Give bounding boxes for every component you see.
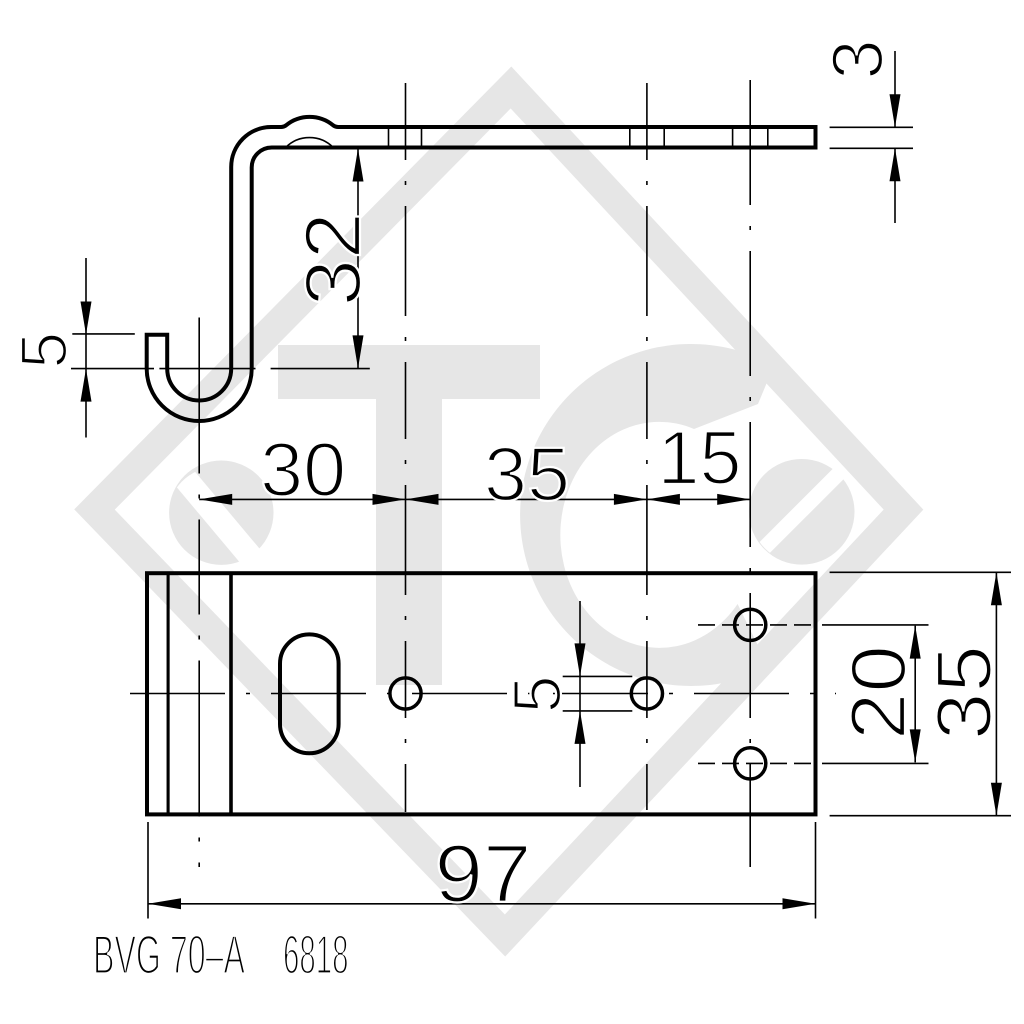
svg-text:35: 35 (484, 433, 570, 518)
vertical centerline hole 1 x=405 (405, 83, 407, 812)
fold line left 2 (229, 573, 233, 814)
centerline through hook tip (71, 368, 154, 370)
vertical centerline hole 2 x=647 (646, 83, 648, 810)
hole 4 (735, 748, 766, 779)
dimension 5 hook lip (6, 258, 135, 438)
plan view plate outline (147, 573, 816, 814)
dimension 35 plate width (830, 572, 1011, 815)
vertical centerline hook axis x=199 (198, 318, 200, 868)
svg-text:97: 97 (435, 829, 532, 920)
svg-text:6818: 6818 (283, 924, 349, 986)
dashed centerline hole 4 (698, 762, 814, 764)
watermark diamond border (95, 88, 904, 936)
dashed centerline hole 3 (698, 624, 814, 626)
svg-text:5: 5 (499, 675, 575, 713)
dimension 20 (834, 626, 922, 763)
dimension row 30 35 15 (199, 416, 750, 518)
dimension 3 thickness (818, 39, 913, 223)
hole edge ticks on side view (388, 127, 390, 148)
dimension 97 overall length (148, 822, 816, 920)
slot emboss inner arc (thin) (286, 138, 334, 148)
svg-text:35: 35 (919, 645, 1007, 740)
watermark left disc logo (160, 452, 274, 575)
hole 3 (735, 609, 766, 640)
svg-text:32: 32 (288, 212, 377, 306)
hole 2 (631, 678, 662, 709)
fold line left 1 (167, 573, 170, 814)
svg-text:5: 5 (6, 332, 80, 369)
svg-text:30: 30 (260, 428, 346, 513)
watermark right disc logo (747, 456, 857, 566)
extension line hole 3 right (822, 624, 929, 626)
part label BVG 70-A 6818 (93, 924, 349, 986)
extension line hole 4 right (822, 762, 929, 764)
vertical centerline holes 3-4 x=750 (749, 80, 751, 867)
horizontal centerline plan view (130, 693, 836, 695)
side profile outline of bracket (147, 117, 816, 421)
watermark letter C (520, 344, 774, 686)
hole 1 (390, 678, 421, 709)
slot (obround) (280, 634, 339, 753)
dimension 5 hole diameter (499, 601, 632, 787)
svg-text:20: 20 (834, 645, 922, 740)
dimension 32 (271, 148, 377, 369)
svg-text:15: 15 (658, 416, 742, 501)
svg-text:3: 3 (818, 39, 898, 79)
svg-text:BVG 70–A: BVG 70–A (93, 924, 245, 986)
watermark letter T (278, 345, 540, 685)
